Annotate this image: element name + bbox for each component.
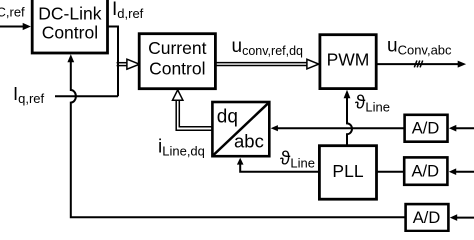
block U7 A/D converter 2 xyxy=(404,157,447,184)
wire thetaLine PLL to dq/abc xyxy=(237,158,320,172)
svg-text:dq: dq xyxy=(217,107,238,128)
wire input to A/D2 xyxy=(449,168,474,175)
wire input to A/D1 xyxy=(449,125,474,132)
block U8 A/D converter 3 xyxy=(406,204,449,231)
svg-text:C,ref: C,ref xyxy=(0,5,25,20)
block U1 DC-Link Control xyxy=(32,0,107,53)
svg-text:Current: Current xyxy=(148,38,206,58)
wire input to A/D3 xyxy=(450,214,474,221)
svg-text:PWM: PWM xyxy=(327,50,370,70)
wire A/D3 to DC-Link Control with crossover hop xyxy=(67,54,405,217)
block U3 PWM xyxy=(320,35,376,89)
svg-text:A/D: A/D xyxy=(412,119,440,137)
svg-text:Control: Control xyxy=(149,58,205,78)
svg-text:PLL: PLL xyxy=(332,161,363,181)
block U2 Current Control xyxy=(139,34,215,89)
wire thetaLine PLL to PWM with crossover hop xyxy=(344,90,352,146)
wire A/D1 to dq/abc with arrow xyxy=(271,125,405,131)
three-phase slash marks xyxy=(414,61,422,68)
svg-text:Control: Control xyxy=(42,23,98,43)
wire A/D2 to PLL xyxy=(377,171,405,173)
block U5 PLL xyxy=(319,146,376,200)
wire Id,ref from DC-Link Control xyxy=(108,27,119,97)
block U4 dq/abc transform xyxy=(212,102,269,156)
wire Iq,ref xyxy=(55,95,118,97)
svg-text:abc: abc xyxy=(234,131,264,152)
wire uConv,abc output with arrow xyxy=(376,61,466,68)
vector wire iLine,dq from dq/abc to Current Control xyxy=(173,90,212,130)
vector arrow into Current Control xyxy=(117,59,140,69)
svg-text:A/D: A/D xyxy=(413,209,441,227)
vector wire uconv,ref,dq Current Control to PWM xyxy=(215,59,318,69)
wire uDC,ref input xyxy=(0,23,31,30)
svg-text:DC-Link: DC-Link xyxy=(38,4,101,24)
svg-text:A/D: A/D xyxy=(412,163,440,181)
block U6 A/D converter 1 xyxy=(405,115,448,142)
